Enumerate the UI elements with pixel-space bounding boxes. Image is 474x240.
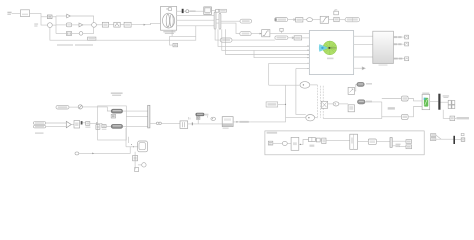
pill P3	[196, 113, 204, 116]
element E1	[348, 87, 354, 94]
label under chain	[310, 145, 315, 147]
stub OV1 to rails	[310, 84, 318, 86]
wire ports to transformer	[161, 122, 180, 124]
wire oval to saturation SA	[313, 19, 321, 21]
pill P2	[111, 124, 122, 128]
block SQ	[74, 121, 80, 129]
wire E1 to pill CA1	[355, 84, 357, 91]
link between bars	[216, 19, 219, 23]
wire RBbot to green block	[408, 107, 422, 117]
powergui block	[219, 9, 226, 12]
tag block	[268, 141, 273, 145]
wire bus to CT3	[215, 29, 220, 40]
wire FT2	[46, 126, 67, 128]
wire BL1-BL2	[109, 24, 114, 26]
out row 3 display	[405, 57, 409, 61]
block Y	[322, 138, 326, 143]
branch to lower input	[254, 50, 309, 57]
reference block	[21, 10, 30, 17]
rounded block RB2	[368, 139, 376, 144]
scope block	[204, 7, 212, 15]
relational block	[309, 137, 316, 141]
block BL1	[102, 22, 108, 27]
drop wire from mux	[443, 110, 450, 119]
green block label	[422, 93, 429, 95]
wire block to corner and down to sum	[30, 13, 48, 25]
label above displays	[443, 95, 450, 98]
from tag row A	[275, 18, 288, 22]
measurement oval OV2	[306, 115, 315, 121]
small block	[216, 9, 219, 12]
arrowhead	[260, 33, 262, 35]
small block SB2	[133, 156, 138, 161]
wire P2 to bus creator	[123, 125, 148, 127]
bus creator	[148, 105, 150, 128]
label under TC	[102, 129, 107, 130]
link from big block left port	[269, 62, 310, 64]
tag block B	[47, 15, 52, 19]
descending feed 3	[226, 29, 310, 54]
tick 2	[96, 122, 98, 125]
scope square	[461, 138, 465, 141]
mini mux	[390, 138, 392, 148]
out row wires	[393, 37, 404, 59]
wire P1 to bus creator	[123, 110, 148, 112]
small block with circle	[197, 116, 200, 119]
label below tags	[35, 132, 44, 134]
wire mux to clock	[184, 10, 186, 12]
G9: lower small subsystem	[75, 128, 148, 172]
wires mux to gotos	[392, 141, 406, 146]
wire tag B to rail	[52, 16, 56, 18]
label under loop	[57, 44, 93, 46]
out wire 2	[354, 43, 373, 45]
G5: measurement list block and displays	[373, 31, 409, 66]
G2: synchronous machine and measurements	[161, 7, 310, 70]
goto capsule CT2	[240, 32, 251, 36]
wire to RB bottom	[382, 116, 402, 118]
pill CA2	[358, 100, 366, 104]
small oval with dot	[333, 102, 339, 106]
converter block	[222, 117, 233, 129]
wire CT3 to from tag	[232, 39, 275, 41]
G6: field excitation circuit	[266, 63, 422, 121]
wire sum out to rail	[52, 24, 56, 26]
pill P1	[111, 109, 122, 113]
label right of CA2	[366, 101, 372, 103]
wire to blockY	[320, 139, 322, 141]
annotation text above container	[111, 92, 123, 96]
small tag above SA	[334, 10, 339, 15]
goto tag wire	[170, 36, 196, 45]
converter out wire	[233, 121, 250, 123]
goto capsule CT1	[240, 19, 252, 23]
G7: scope cluster right	[422, 93, 469, 121]
wire TR to SQ	[71, 124, 74, 126]
container rect	[98, 106, 127, 140]
icon label	[327, 58, 334, 60]
wire RA2 to goto	[339, 19, 345, 21]
wire to TC	[97, 123, 102, 124]
vertical drop A	[268, 63, 270, 85]
wire C2 to collector	[83, 27, 94, 33]
rail 2	[319, 86, 321, 118]
out row 1 display	[405, 35, 409, 39]
out wire 1	[354, 35, 373, 37]
big subsystem block	[309, 31, 353, 75]
subsystem RS	[138, 141, 148, 152]
rail 1	[316, 85, 318, 119]
saturation block SA	[320, 16, 328, 23]
edge block on container	[96, 125, 100, 130]
wire tag to oval	[273, 142, 283, 144]
gain triangle T2	[79, 23, 83, 27]
goto GT1	[406, 140, 412, 144]
G8: bottom-left measurement chain	[33, 92, 285, 140]
from tag a	[431, 134, 436, 137]
wire TC to P2	[106, 125, 111, 127]
vertical drop B	[296, 69, 306, 115]
G11: bottom-right scope cluster	[431, 133, 465, 144]
out row 2 label	[394, 43, 402, 45]
sum S2	[92, 23, 97, 28]
area title	[267, 132, 278, 134]
icon spokes	[323, 41, 336, 54]
wire tall to relational	[299, 140, 309, 145]
G10: annotation area box with logic chain	[265, 131, 424, 155]
transfer fcn block	[66, 23, 71, 27]
arrow row A	[288, 19, 296, 21]
small tag T	[280, 28, 283, 31]
tick on wire	[192, 122, 193, 125]
wire green to mux	[430, 101, 439, 103]
wire oval to tall	[287, 142, 291, 144]
from tag FT1	[33, 122, 45, 125]
mux tick	[81, 121, 83, 124]
feedback wire from measurement	[50, 26, 196, 40]
entry dots	[307, 45, 308, 69]
wire switch to container	[82, 107, 111, 111]
wire Y to TB2	[326, 140, 350, 142]
wire to small circle	[72, 33, 80, 35]
vertical C	[285, 85, 287, 118]
container drop wires	[126, 128, 129, 147]
wire T1 to collector	[70, 16, 93, 23]
block BL3	[124, 22, 131, 27]
out row 2 display	[405, 42, 409, 46]
wire to RS	[126, 146, 138, 148]
wire SA to RA2	[329, 19, 334, 21]
small block under P1	[111, 114, 115, 118]
stub to tag above	[281, 31, 283, 33]
source capsule CS	[56, 105, 69, 109]
bus selector bar 2	[219, 14, 221, 30]
wire scope to powergui row	[211, 10, 215, 12]
out wire 3	[354, 56, 373, 58]
wire const to block	[12, 12, 21, 14]
mux bar	[182, 9, 184, 13]
wire IC right	[90, 122, 97, 124]
rounded block RB top	[401, 96, 408, 101]
wire SB to big block	[270, 32, 309, 34]
goto capsule GT_A	[345, 17, 360, 21]
arrow CT2 to saturation	[251, 33, 260, 35]
icon blue dot	[321, 47, 323, 49]
wire T2 to sum2	[83, 24, 92, 26]
junction dots	[131, 144, 134, 147]
wire to blockX	[315, 139, 316, 141]
wire CA2 to vdc node	[365, 101, 382, 103]
wire TB2 to RB2	[358, 141, 369, 143]
stray arrow	[354, 67, 366, 70]
label block on wire	[240, 121, 249, 123]
oval OA	[307, 18, 313, 22]
section label text	[366, 83, 372, 85]
wire RA1 to oval	[303, 19, 307, 21]
wire sum2 out	[96, 24, 102, 26]
arrow row B	[288, 37, 294, 39]
gain triangle T1	[67, 14, 71, 18]
stub OV2 right	[315, 117, 318, 119]
chain junction dot	[300, 144, 301, 145]
area box	[265, 131, 424, 155]
wire FT1	[46, 122, 67, 124]
labels right of mux	[396, 144, 401, 148]
vdc text	[388, 107, 395, 109]
block BL2	[114, 22, 120, 27]
display squares row 2	[448, 105, 455, 109]
label under tall block	[379, 64, 388, 65]
mux bar 3	[453, 136, 455, 144]
machine block	[161, 7, 177, 31]
block RB1	[294, 36, 302, 40]
gain triangle TR	[66, 121, 71, 128]
bus selector bar 1	[214, 12, 216, 29]
machine label	[163, 31, 175, 34]
tall block TB2	[350, 134, 358, 149]
sum S1	[48, 23, 53, 28]
wire bus to goto CT1	[221, 20, 240, 22]
label after circle	[190, 10, 196, 12]
descending feed 2	[222, 29, 309, 50]
converge wires	[436, 135, 454, 139]
wire mux to displays	[441, 101, 449, 103]
block IC	[86, 122, 90, 126]
branch rail	[55, 16, 57, 34]
icon center bar	[328, 47, 336, 50]
from tag FT2	[33, 125, 45, 128]
saturation block SB	[262, 30, 270, 37]
stub down	[198, 116, 207, 124]
G4: regulator big block	[309, 31, 373, 75]
block TC	[102, 125, 106, 128]
display squares row 1	[448, 100, 455, 104]
wire CS to switch	[69, 106, 78, 108]
icon center dot	[328, 47, 330, 49]
icon above scope	[461, 133, 464, 135]
bottom dc wire	[323, 118, 382, 120]
wire small block right	[455, 117, 457, 119]
descending feed 1	[218, 29, 309, 46]
manual switch	[78, 105, 82, 109]
wire tick to IC	[83, 122, 86, 124]
bottom branch wire	[56, 33, 66, 35]
wire RB1 to big block	[302, 37, 310, 39]
mux bar 2	[438, 94, 440, 110]
block RA2	[334, 17, 339, 21]
wire OV2 left	[286, 117, 306, 119]
wire RB2 to mux	[376, 141, 390, 143]
middle branch wire	[56, 24, 66, 26]
wire transformer right	[188, 123, 223, 125]
small block below	[450, 116, 455, 121]
machine top glyph	[166, 8, 171, 11]
goto capsule CT3	[220, 38, 232, 42]
machine rotor outer ellipse	[163, 13, 175, 28]
diode element X	[321, 101, 327, 108]
integrator block	[66, 32, 71, 36]
machine bottom port drop	[171, 30, 173, 36]
machine out wire 2	[177, 15, 214, 17]
icon green circle	[323, 41, 337, 55]
machine winding ellipse right	[170, 14, 173, 27]
tall block	[291, 137, 299, 150]
rail 3	[322, 86, 324, 119]
long wire with source oval	[75, 147, 130, 155]
wire to gain T2	[72, 24, 79, 26]
arrow tick on wire	[144, 24, 146, 26]
ticks above right of transformer	[189, 117, 190, 120]
small circle C2	[79, 32, 83, 36]
machine winding ellipse left	[166, 14, 169, 27]
junction dot	[285, 104, 286, 105]
pill CA1	[357, 82, 364, 86]
transformer block	[180, 121, 188, 128]
small circle block	[186, 10, 189, 13]
wire label to vertical C	[278, 103, 286, 105]
oval in chain	[282, 141, 287, 145]
wire mux to scope	[455, 139, 461, 141]
block RA1	[296, 18, 303, 22]
wire to RB top	[382, 98, 402, 100]
goto tag m	[173, 43, 178, 46]
element E2	[348, 105, 354, 112]
wire RBtop to green block	[408, 99, 422, 101]
constant wref label	[7, 12, 11, 15]
label right	[457, 117, 470, 119]
from tag b	[431, 138, 436, 141]
bottom tiny block	[135, 167, 139, 171]
label right of P3	[205, 114, 209, 116]
from tag row B	[275, 36, 288, 39]
wire BL2-BL3	[120, 24, 124, 26]
icon cyan wedge	[319, 44, 328, 52]
green display block	[422, 94, 430, 109]
label under IC	[85, 127, 90, 128]
bus out wire	[150, 122, 157, 124]
vdc vertical	[381, 102, 383, 119]
gradient tall block	[373, 31, 394, 63]
top field wire	[269, 84, 300, 86]
wire oval to E1 area	[339, 103, 348, 105]
wire bus to CT2	[221, 23, 240, 33]
small circle CC	[138, 163, 146, 167]
field label block	[266, 102, 278, 107]
oval with dot	[211, 117, 216, 120]
G3: top-right signal rows	[220, 10, 359, 42]
out row 3 label	[394, 58, 403, 60]
vertical chain below RS	[134, 152, 136, 170]
G1: speed reference and regulator loop	[7, 10, 195, 47]
wire to field vertical	[250, 118, 285, 122]
goto GT2	[406, 145, 412, 149]
port circles	[156, 122, 161, 125]
wire container mid to bus creator	[126, 116, 147, 118]
machine out wire 1	[177, 10, 182, 12]
arrow tick	[236, 121, 238, 123]
machine out wire 3	[177, 19, 214, 21]
measurement oval OV1	[300, 82, 310, 89]
link from big block lower port	[296, 68, 309, 70]
text left of sum	[34, 23, 38, 26]
rounded block RB bottom	[401, 114, 408, 119]
block X	[316, 138, 320, 142]
rate limiter label block	[88, 37, 96, 40]
out row 1 label	[394, 36, 402, 38]
top branch wire	[56, 15, 67, 17]
wire to scope	[189, 10, 204, 12]
machine out wire 4	[177, 25, 214, 27]
wire branch to top tag	[41, 16, 47, 18]
wire X to oval	[328, 103, 334, 105]
wire BL3 to machine	[131, 23, 160, 24]
